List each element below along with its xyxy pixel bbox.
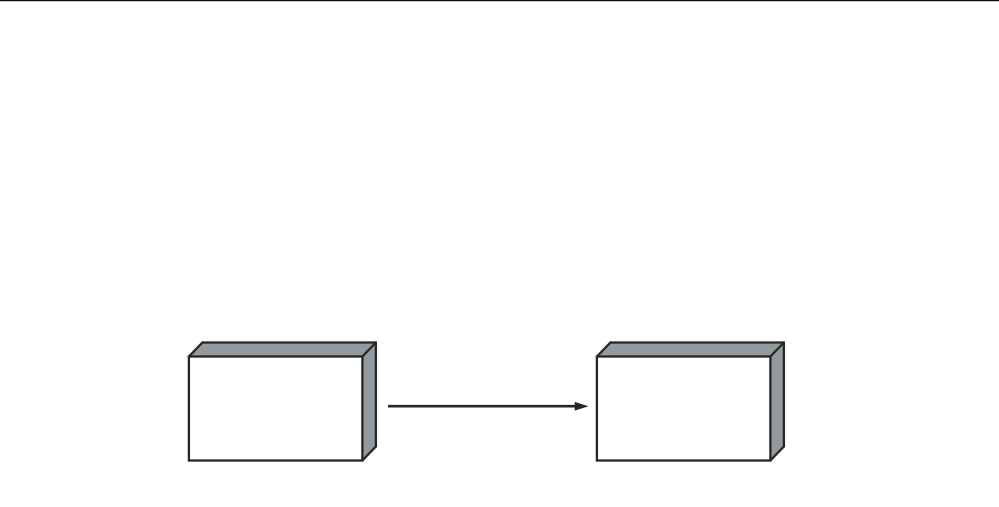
box 2 right face fill <box>770 343 784 461</box>
box 2 back top edge <box>610 341 784 343</box>
box 1 right face fill <box>362 343 376 461</box>
box 1 front face fill <box>189 357 363 461</box>
box 2 top-left depth edge <box>597 343 611 357</box>
box 2 bottom-right depth edge <box>770 447 784 461</box>
arrow head <box>575 402 589 411</box>
box 1 bottom-right depth edge <box>362 447 376 461</box>
box 2 top-right depth edge <box>770 343 784 357</box>
box 2 edges <box>597 343 784 461</box>
box 1 front face outline <box>189 357 363 461</box>
box 2 back right edge <box>783 343 785 447</box>
box 1 (left cuboid) <box>189 343 376 461</box>
box 2 front face outline <box>597 357 771 461</box>
box 1 top-left depth edge <box>189 343 203 357</box>
top rule line <box>0 0 999 1</box>
box 1 edges <box>189 343 376 461</box>
box 2 (right cuboid) <box>597 343 784 461</box>
arrow shaft <box>388 405 576 408</box>
box 2 front face fill <box>597 357 771 461</box>
box 1 top face fill <box>189 343 376 357</box>
box 1 back top edge <box>202 341 376 343</box>
box 1 back right edge <box>375 343 377 447</box>
box 1 top-right depth edge <box>362 343 376 357</box>
box 2 top face fill <box>597 343 784 357</box>
arrow connector <box>388 402 589 411</box>
